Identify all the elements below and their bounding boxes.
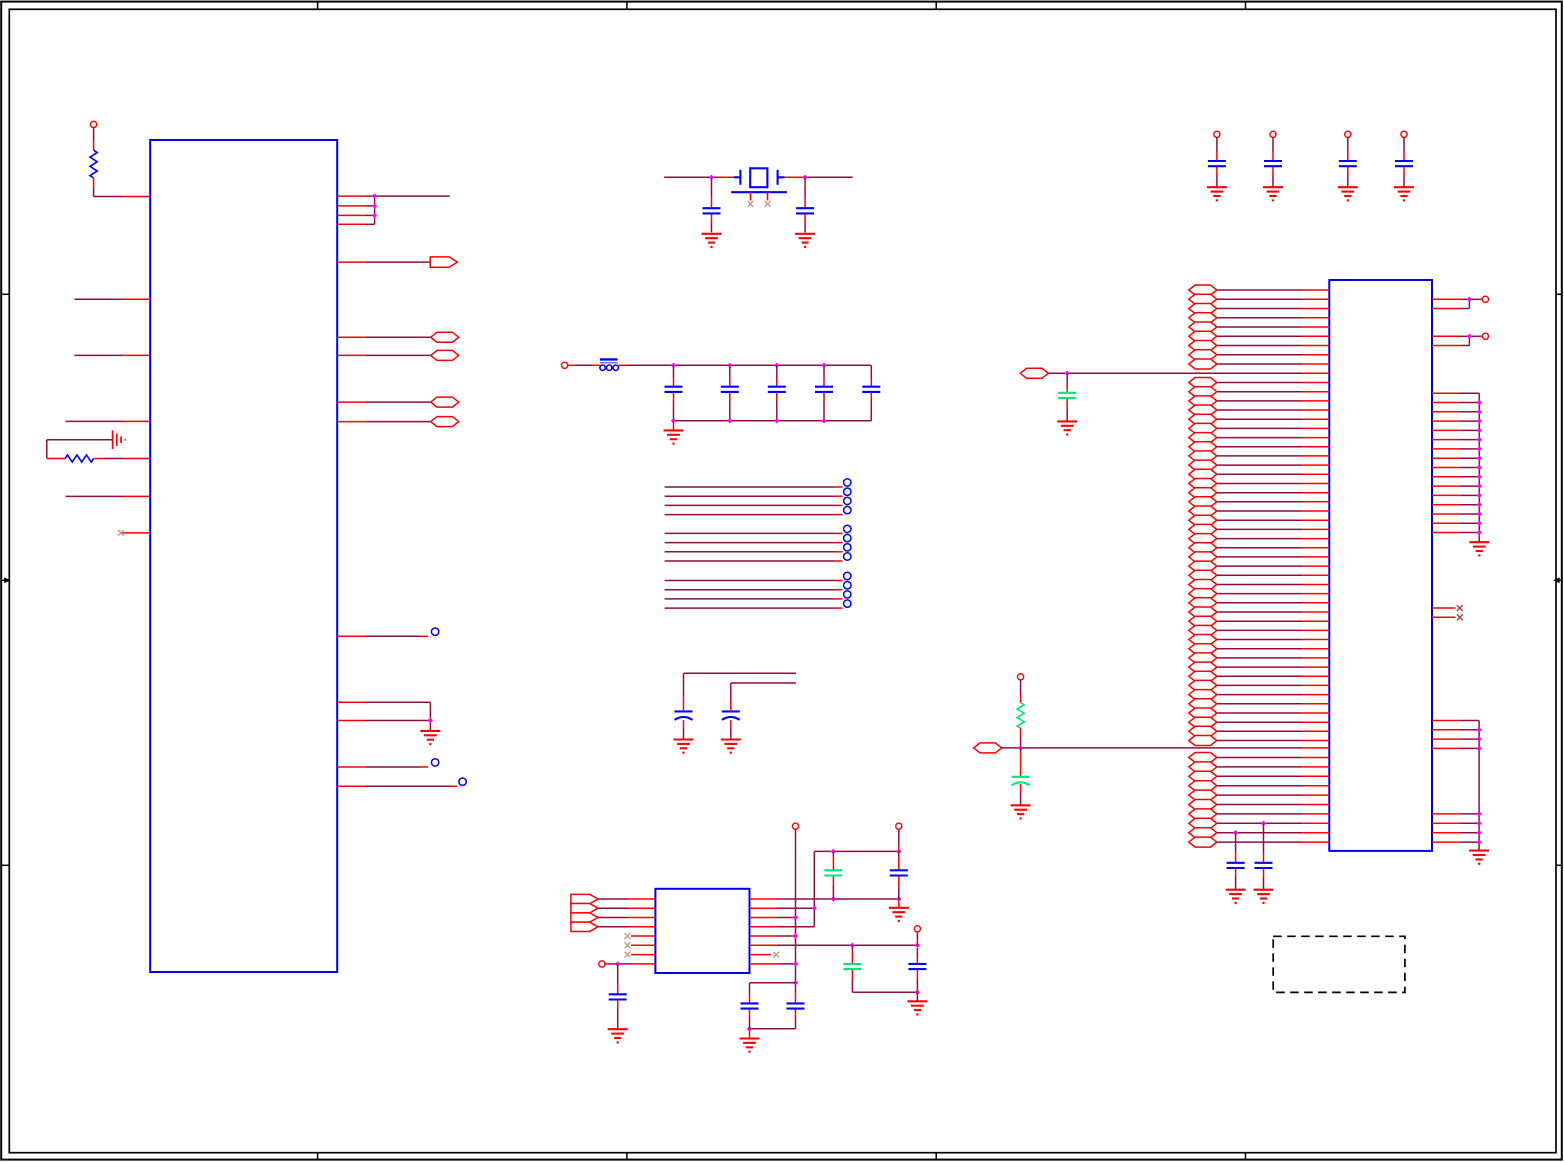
terminal T9 xyxy=(896,823,902,829)
capacitor C4 xyxy=(1264,161,1282,166)
capacitor C9 leads xyxy=(776,365,778,421)
terminal T5 xyxy=(1401,131,1407,137)
ground G9 xyxy=(674,740,694,753)
wire VCC link xyxy=(814,851,899,926)
junctions J1 right lower groups xyxy=(1476,727,1481,845)
capacitor C22 xyxy=(1012,777,1030,786)
terminal T8 xyxy=(792,823,798,829)
x-mark crystal pin1 xyxy=(748,201,754,207)
ferrite bead FB1 xyxy=(600,359,619,370)
capacitor C16 xyxy=(741,1003,759,1008)
wire T1 to R1 xyxy=(93,127,95,141)
port P2 hexagon xyxy=(431,332,459,342)
capacitor C1 xyxy=(703,208,721,213)
capacitor C10 leads xyxy=(823,365,825,421)
wires J1 left pins xyxy=(1217,290,1330,842)
wire U2 row5 xyxy=(750,935,796,937)
resistor R1 xyxy=(90,150,97,178)
capacitor C18 leads xyxy=(898,851,900,899)
ground G6 xyxy=(1338,187,1358,200)
IC U1 xyxy=(150,140,337,972)
capacitor C13 lower lead xyxy=(730,720,732,739)
ground G2 xyxy=(702,234,722,247)
terminal T10 xyxy=(914,926,920,932)
junctions VCC link xyxy=(812,849,902,911)
capacitor C8 leads xyxy=(729,365,731,421)
ground G13 xyxy=(889,908,909,921)
capacitor C13 xyxy=(722,711,740,720)
no-connect circles group 2 xyxy=(844,525,851,560)
terminal T2 xyxy=(1214,131,1220,137)
capacitor C5 xyxy=(1339,161,1357,166)
frame zone ticks top xyxy=(318,2,1246,10)
wire FB1 to cap bank xyxy=(619,364,872,366)
terminal T11 xyxy=(1018,674,1024,680)
capacitor C3 leads xyxy=(1216,137,1218,186)
connector J1 xyxy=(1329,280,1432,851)
capacitor C8 xyxy=(721,387,739,392)
no-connect pins J1 right xyxy=(1432,608,1456,617)
wire bus to ground xyxy=(673,421,675,430)
junction row 720 xyxy=(428,718,433,723)
ground G11 xyxy=(608,1029,628,1042)
capacitor C7 leads xyxy=(673,365,675,421)
wire U2 row2 xyxy=(750,907,815,909)
ground G12 xyxy=(740,1039,760,1052)
wire crystal net xyxy=(664,176,853,178)
wire T9 down xyxy=(898,829,900,851)
capacitor C17 leads xyxy=(832,851,834,899)
ground G14 xyxy=(907,1001,927,1014)
capacitor C12 lower lead xyxy=(683,720,685,739)
wire U2 row6 net xyxy=(750,944,918,946)
junction C24 net xyxy=(1261,821,1266,826)
terminal T13 xyxy=(1482,333,1488,339)
wire U2 row4 xyxy=(750,926,815,928)
x-marks J1 right xyxy=(1457,605,1463,620)
junction T7 net xyxy=(615,961,620,966)
no-connect pin U1 row 533 xyxy=(121,532,150,534)
wire U1 row 355 to port xyxy=(337,354,431,356)
no-connect pin U2 row7 xyxy=(750,954,772,956)
wire C19 bottom xyxy=(852,991,917,993)
wire caps bottom bus xyxy=(750,1028,796,1030)
ground G8 xyxy=(664,430,684,443)
x-marks U2 left xyxy=(625,933,631,957)
wire to analog ground xyxy=(47,440,113,459)
junction C23 net xyxy=(1233,830,1238,835)
capacitor C7 xyxy=(665,387,683,392)
capacitor C21 leads xyxy=(1066,373,1068,421)
junctions U2 row6 xyxy=(850,943,920,948)
capacitor C6 xyxy=(1395,161,1413,166)
ground G20 xyxy=(1254,890,1274,903)
wire T10 down xyxy=(916,932,918,946)
capacitor C5 leads xyxy=(1347,137,1349,186)
wire R1 to U1 pin xyxy=(94,178,151,197)
wire U1 row 702 to ground xyxy=(337,702,430,730)
junction C20 bottom xyxy=(915,990,920,995)
wire U1 pin row 299 xyxy=(74,298,150,300)
ground G5 xyxy=(1263,187,1283,200)
wire C13 top xyxy=(731,683,796,710)
capacitor C14 lower lead xyxy=(617,1000,619,1029)
ground G1 xyxy=(420,731,440,744)
junction caps bottom xyxy=(747,1026,752,1031)
wire U1 pin row 355 xyxy=(74,354,150,356)
ground G17 xyxy=(1469,542,1489,555)
capacitor C23 xyxy=(1227,863,1245,868)
dashed outline box xyxy=(1273,936,1405,992)
junctions U2 row1 xyxy=(831,896,902,901)
no-connect circle row 636 xyxy=(431,628,438,635)
ground G18 xyxy=(1469,851,1489,864)
capacitor C2 lower lead xyxy=(804,214,806,232)
ground G19 xyxy=(1226,890,1246,903)
ground G16 xyxy=(1011,805,1031,818)
wire U1 row 402 to port xyxy=(337,401,431,403)
wire P11 to J1 xyxy=(1002,747,1330,749)
capacitor C9 xyxy=(768,387,786,392)
no-connect circle row 786 xyxy=(459,778,466,785)
junction P11 net xyxy=(1018,745,1023,750)
wires J1 right pair 1 xyxy=(1432,299,1483,308)
capacitor C14 xyxy=(609,994,627,999)
wire cap bank bottom bus xyxy=(674,420,872,422)
capacitor C24 xyxy=(1255,863,1273,868)
capacitor C24 leads xyxy=(1263,823,1265,889)
capacitor C23 leads xyxy=(1235,833,1237,889)
wire U1 pin row 421 xyxy=(66,420,151,422)
capacitor C20 leads xyxy=(916,948,918,1001)
resistor R3 xyxy=(1017,703,1024,729)
junctions J1 right mid group xyxy=(1477,400,1482,535)
ground G7 xyxy=(1394,187,1414,200)
ports J1 left hexagons xyxy=(1189,285,1217,847)
capacitor C6 leads xyxy=(1403,137,1405,186)
wire U2 row3 xyxy=(750,917,796,919)
analog ground AGND xyxy=(113,430,126,449)
terminal T1 xyxy=(91,121,97,127)
frame center arrow left xyxy=(1,577,11,583)
crystal Y1 xyxy=(731,168,787,192)
wire R2 to U1 pin xyxy=(94,458,151,460)
terminal T7 xyxy=(599,961,605,967)
port P4 hexagon xyxy=(431,397,459,407)
terminal T6 xyxy=(562,362,568,368)
wire T7 to U2 row 8 xyxy=(605,963,656,965)
ground G4 xyxy=(1207,187,1227,200)
wires NC group 1 xyxy=(665,487,843,515)
ground G3 xyxy=(795,234,815,247)
x-mark crystal pin2 xyxy=(765,201,771,207)
no-connect circle row 767 xyxy=(431,759,438,766)
terminal T12 xyxy=(1482,296,1488,302)
junctions rail T8 xyxy=(793,915,798,986)
ground G10 xyxy=(721,740,741,753)
wire T6 to FB1 xyxy=(568,364,600,366)
capacitor C20 xyxy=(908,964,926,969)
capacitor C2 lead xyxy=(804,177,806,207)
ports P6-P9 flags xyxy=(571,894,598,931)
wire U1 row 422 to port xyxy=(337,421,431,423)
capacitor C17 xyxy=(824,870,842,875)
capacitor C16 leads xyxy=(750,983,796,1038)
ground G15 xyxy=(1057,421,1077,434)
no-connect pins U2 left rows 5-7 xyxy=(631,936,655,955)
junctions cap bank bottom xyxy=(671,418,827,423)
capacitor C3 xyxy=(1208,161,1226,166)
wire C18 to ground xyxy=(898,899,900,908)
wires U2 left rows 1-4 xyxy=(598,899,655,927)
port P3 hexagon xyxy=(431,350,459,360)
junction crystal right xyxy=(802,175,807,180)
wire C12 top xyxy=(684,673,797,710)
wire U1 pin row 496 xyxy=(66,495,151,497)
frame zone ticks left xyxy=(1,294,9,865)
wires U1 pin cluster rows 196-224 xyxy=(337,196,450,224)
wire T11 to R3 xyxy=(1020,680,1022,703)
wire rail T8 xyxy=(795,829,797,993)
capacitor C12 xyxy=(675,711,693,720)
capacitor C19 xyxy=(843,964,861,969)
port P10 hexagon xyxy=(1020,368,1048,378)
wire U1 row 786 xyxy=(337,785,457,787)
junctions cap bank top xyxy=(671,363,827,368)
port P1 flag xyxy=(430,257,457,267)
capacitor C10 xyxy=(815,387,833,392)
capacitor C15 xyxy=(787,1003,805,1008)
frame zone ticks right xyxy=(1556,294,1562,865)
frame center arrow right xyxy=(1553,577,1562,583)
junction crystal left xyxy=(709,175,714,180)
capacitor C21 xyxy=(1058,393,1076,398)
terminal T3 xyxy=(1270,131,1276,137)
capacitor C11 xyxy=(862,387,880,392)
wire U2 row8 xyxy=(750,963,796,965)
capacitor C11 leads xyxy=(870,365,872,421)
no-connect circles group 1 xyxy=(844,479,851,514)
capacitor C18 xyxy=(890,870,908,875)
wire U1 row 262 to port xyxy=(337,261,430,263)
wire U1 row 720 to ground xyxy=(337,720,430,722)
wire U2 row1 net xyxy=(750,898,899,900)
wires NC group 3 xyxy=(665,581,843,609)
wire P10 to J1 xyxy=(1048,372,1329,374)
junctions cluster xyxy=(372,193,377,218)
capacitor C22 leads xyxy=(1020,748,1022,805)
wire R3 to net xyxy=(1020,728,1022,748)
capacitor C19 leads xyxy=(851,945,853,992)
wire U1 row 767 xyxy=(337,766,428,768)
junction pair 1 xyxy=(1467,297,1472,302)
resistor R2 xyxy=(65,455,94,462)
wires J1 right pair 2 xyxy=(1432,336,1483,345)
capacitor C14 lead xyxy=(617,964,619,994)
terminal T4 xyxy=(1345,131,1351,137)
wire U1 row 337 to port xyxy=(337,336,431,338)
frame zone ticks bottom xyxy=(318,1153,1246,1160)
port P5 hexagon xyxy=(431,417,459,427)
junction P10 net xyxy=(1065,371,1070,376)
wires NC group 2 xyxy=(665,533,843,561)
junction pair 2 xyxy=(1467,334,1472,339)
capacitor C1 lead xyxy=(711,177,713,207)
IC U2 xyxy=(655,889,749,973)
wire to R2 xyxy=(47,458,65,460)
x-mark U2 row7 xyxy=(773,952,779,958)
wires J1 right lower groups xyxy=(1432,721,1479,851)
capacitor C1 lower lead xyxy=(711,214,713,232)
port P11 hexagon xyxy=(974,743,1002,753)
x-mark row 533 xyxy=(118,530,124,536)
wires J1 right mid group xyxy=(1432,393,1479,541)
capacitor C15 leads xyxy=(795,993,797,1029)
crystal case pins xyxy=(751,192,768,200)
capacitor C4 leads xyxy=(1272,137,1274,186)
no-connect circles group 3 xyxy=(844,572,851,607)
wire U1 row 636 xyxy=(337,635,428,637)
capacitor C2 xyxy=(796,208,814,213)
